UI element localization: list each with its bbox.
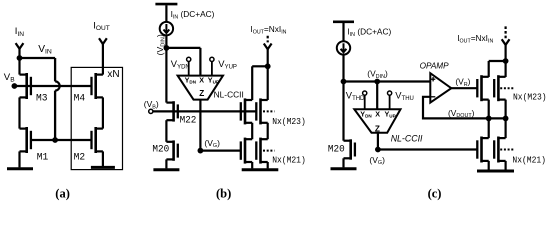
label (V_G) c: [369, 155, 385, 166]
node output dot c: [503, 58, 509, 64]
label I_IN (DC+AC) c: [347, 27, 391, 38]
svg-text:Nx(M23): Nx(M23): [513, 92, 547, 103]
label Y_DN inside b: [185, 75, 197, 84]
label (V_DOUT): [448, 108, 475, 119]
node V_DIN dot b: [164, 45, 170, 51]
label Y_UP inside c: [385, 109, 396, 118]
wire V_IN down to gate node: [54, 91, 56, 140]
label (b): [216, 186, 231, 200]
label Nx(M23) c: [513, 92, 547, 103]
svg-text:OPAMP: OPAMP: [420, 61, 450, 70]
svg-text:Z: Z: [199, 89, 204, 98]
wire M20 source to ground c: [342, 158, 344, 167]
node output dot b: [265, 63, 271, 69]
node gate junction dot: [52, 137, 58, 143]
label V_B: [4, 72, 15, 84]
svg-text:(c): (c): [428, 186, 442, 200]
wire M1 gate to node: [31, 139, 55, 141]
label Nx(M21) b: [272, 155, 306, 166]
terminal Y_DN b: [187, 57, 191, 75]
transistor Nx(M23) left c: [477, 75, 488, 101]
svg-text:Nx(M21): Nx(M21): [272, 155, 306, 166]
transistor M22: [166, 101, 177, 121]
transistor M3: [20, 73, 31, 99]
wire M20 source to ground b: [165, 159, 167, 168]
current arrow I_OUT: [99, 38, 107, 74]
wire V_B to M3 and M4 gates: [14, 85, 91, 87]
label Y_UP inside b: [208, 75, 219, 84]
wire M21 sources to ground b: [252, 162, 268, 168]
dashed gate continuation M21 b: [263, 150, 275, 152]
label I_OUT: [93, 21, 110, 33]
svg-text:M20: M20: [152, 144, 169, 156]
wire current source to node: [165, 35, 167, 48]
wire current source to V_DIN node c: [342, 55, 344, 82]
ground output branch b: [242, 168, 279, 171]
wire gate node to M2 gate: [55, 139, 91, 141]
dashed gate continuation M23 b: [263, 110, 275, 112]
label (c): [428, 186, 442, 200]
wire X input c: [376, 82, 378, 110]
transistor Nx(M21) right b: [256, 138, 267, 164]
svg-text:M20: M20: [328, 144, 345, 156]
terminal Y_UP b: [210, 57, 214, 75]
current arrow I_IN: [16, 43, 24, 58]
wire rail to current source c: [342, 23, 344, 41]
svg-text:M22: M22: [180, 115, 197, 127]
label I_OUT=NxI_IN c: [457, 33, 493, 44]
label (a): [55, 186, 70, 200]
svg-text:NL-CCII: NL-CCII: [391, 133, 423, 143]
nl-ccii trapezoid c: [354, 109, 400, 133]
wire output node down c: [505, 61, 507, 77]
transistor M1: [20, 127, 31, 153]
label (V_R): [455, 76, 470, 87]
label (V_DIN) rotated b: [155, 34, 167, 55]
wire feedback to - input: [423, 97, 506, 119]
wire M3 source to M1 drain: [18, 97, 20, 128]
label (V_DIN) c: [367, 69, 388, 80]
svg-text:M2: M2: [74, 151, 86, 163]
wire M22 source to M20 drain: [165, 120, 167, 142]
label M22: [180, 115, 197, 127]
wire M1 source to ground: [18, 151, 20, 167]
wire opamp output V_R: [451, 87, 477, 89]
wire hop over V_B line: [55, 81, 60, 90]
svg-text:NL-CCII: NL-CCII: [214, 89, 244, 99]
label I_IN: [15, 26, 25, 38]
wire Z output to V_G node b: [199, 100, 201, 151]
label OPAMP italic: [420, 61, 450, 70]
transistor Nx(M21) right c: [494, 137, 505, 163]
svg-text:X: X: [199, 75, 204, 84]
ground output branch c: [477, 170, 514, 173]
wire M20 drain c: [342, 82, 344, 141]
wire M21 sources to ground c: [489, 161, 506, 170]
wire V_B gate line b: [153, 110, 256, 112]
wire V_IN top: [20, 58, 56, 81]
wire V_DIN to opamp +: [344, 80, 431, 82]
svg-text:Z: Z: [375, 124, 380, 133]
svg-text:M3: M3: [36, 93, 48, 105]
label Nx(M21) c: [512, 154, 546, 165]
ground M2: [91, 166, 115, 169]
node V_G dot b: [198, 148, 204, 154]
supply rail c: [333, 20, 354, 23]
label Nx(M23) b: [272, 116, 306, 127]
label M20 c: [328, 144, 345, 156]
label Y_DN inside c: [360, 109, 372, 118]
wire M4 source to M2 drain: [102, 97, 104, 128]
label xN: [107, 69, 119, 80]
box xN replica branch: [71, 67, 122, 169]
label (V_G) b: [204, 138, 220, 149]
svg-text:(VR): (VR): [455, 76, 470, 87]
current source I_IN c: [337, 41, 350, 54]
svg-text:(b): (b): [216, 186, 231, 200]
op-amp U1: [430, 73, 451, 102]
ground M20 b: [153, 168, 179, 171]
wire M3 drain to input node: [18, 58, 20, 75]
transistor M20 c: [344, 139, 355, 159]
label NL-CCII b: [214, 89, 244, 99]
svg-text:M4: M4: [74, 93, 86, 105]
wire V_G to M21 gates c: [378, 148, 477, 150]
svg-text:X: X: [375, 109, 380, 118]
wire M21 drains c: [489, 118, 506, 138]
current arrow I_OUT b: [264, 36, 272, 67]
transistor Nx(M23) left b: [241, 98, 252, 124]
dashed gate continuation M23 c: [500, 87, 514, 89]
transistor M4: [92, 73, 103, 99]
transistor M2: [92, 127, 103, 153]
transistor Nx(M23) right b: [256, 98, 267, 124]
label M20 b: [152, 144, 169, 156]
label Z inside b: [199, 89, 204, 98]
label Z inside c: [375, 124, 380, 133]
terminal V_THD c: [363, 91, 367, 109]
wire M23 sources to M21 drains b: [252, 123, 268, 139]
transistor Nx(M23) right c: [494, 75, 505, 101]
label V_THD c: [346, 89, 365, 102]
wire M22 drain: [165, 48, 167, 103]
terminal circle V_B b: [149, 109, 153, 113]
node dot X branch c: [374, 79, 380, 85]
svg-text:(a): (a): [55, 186, 70, 200]
node V_IN junction dot: [17, 55, 23, 61]
node dot left c: [341, 79, 347, 85]
ground M20 c: [331, 167, 357, 170]
label X inside b: [199, 75, 204, 84]
terminal V_THU c: [388, 91, 392, 109]
label V_YDN b: [171, 58, 190, 71]
label M4: [74, 93, 86, 105]
svg-text:Nx(M23): Nx(M23): [272, 116, 306, 127]
label X inside c: [375, 109, 380, 118]
wire rail to current source: [165, 5, 167, 22]
label I_OUT=NxI_IN b: [250, 24, 286, 35]
wire output node to left branch c: [489, 61, 506, 77]
supply rail b: [155, 3, 177, 6]
nl-ccii trapezoid b: [178, 76, 223, 100]
wire M2 source to ground: [102, 151, 104, 166]
label NL-CCII italic c: [391, 133, 423, 143]
wire output node down b: [267, 66, 269, 100]
node dots V_DOUT c: [486, 116, 509, 122]
svg-text:M1: M1: [37, 151, 49, 163]
transistor Nx(M21) left c: [477, 137, 488, 163]
svg-text:(VG): (VG): [204, 138, 220, 149]
wire Z to V_G node c: [377, 133, 379, 150]
ground M1: [7, 167, 33, 170]
wire V_DIN to X input: [166, 48, 200, 76]
label M1: [37, 151, 49, 163]
wire V_G to M21 gates b: [200, 150, 240, 152]
label (V_B) b: [144, 99, 159, 110]
label V_IN: [38, 44, 52, 56]
current source I_IN b: [160, 22, 173, 35]
label M2: [74, 151, 86, 163]
terminal dot V_B: [12, 83, 18, 89]
svg-text:(VG): (VG): [369, 155, 385, 166]
svg-text:Nx(M21): Nx(M21): [512, 154, 546, 165]
transistor Nx(M21) left b: [241, 138, 252, 164]
label V_THU c: [395, 89, 414, 102]
label V_YUP b: [218, 58, 237, 71]
wire output node to left branch b: [252, 66, 268, 100]
label M3: [36, 93, 48, 105]
node V_G dot c: [375, 147, 381, 153]
label I_IN (DC+AC) b: [171, 9, 215, 20]
current arrow I_OUT c: [502, 26, 510, 61]
dashed gate continuation M21 c: [500, 149, 514, 151]
svg-text:xN: xN: [107, 69, 119, 80]
transistor M20 b: [166, 140, 177, 160]
wire M23 sources to V_DOUT c: [489, 100, 506, 119]
